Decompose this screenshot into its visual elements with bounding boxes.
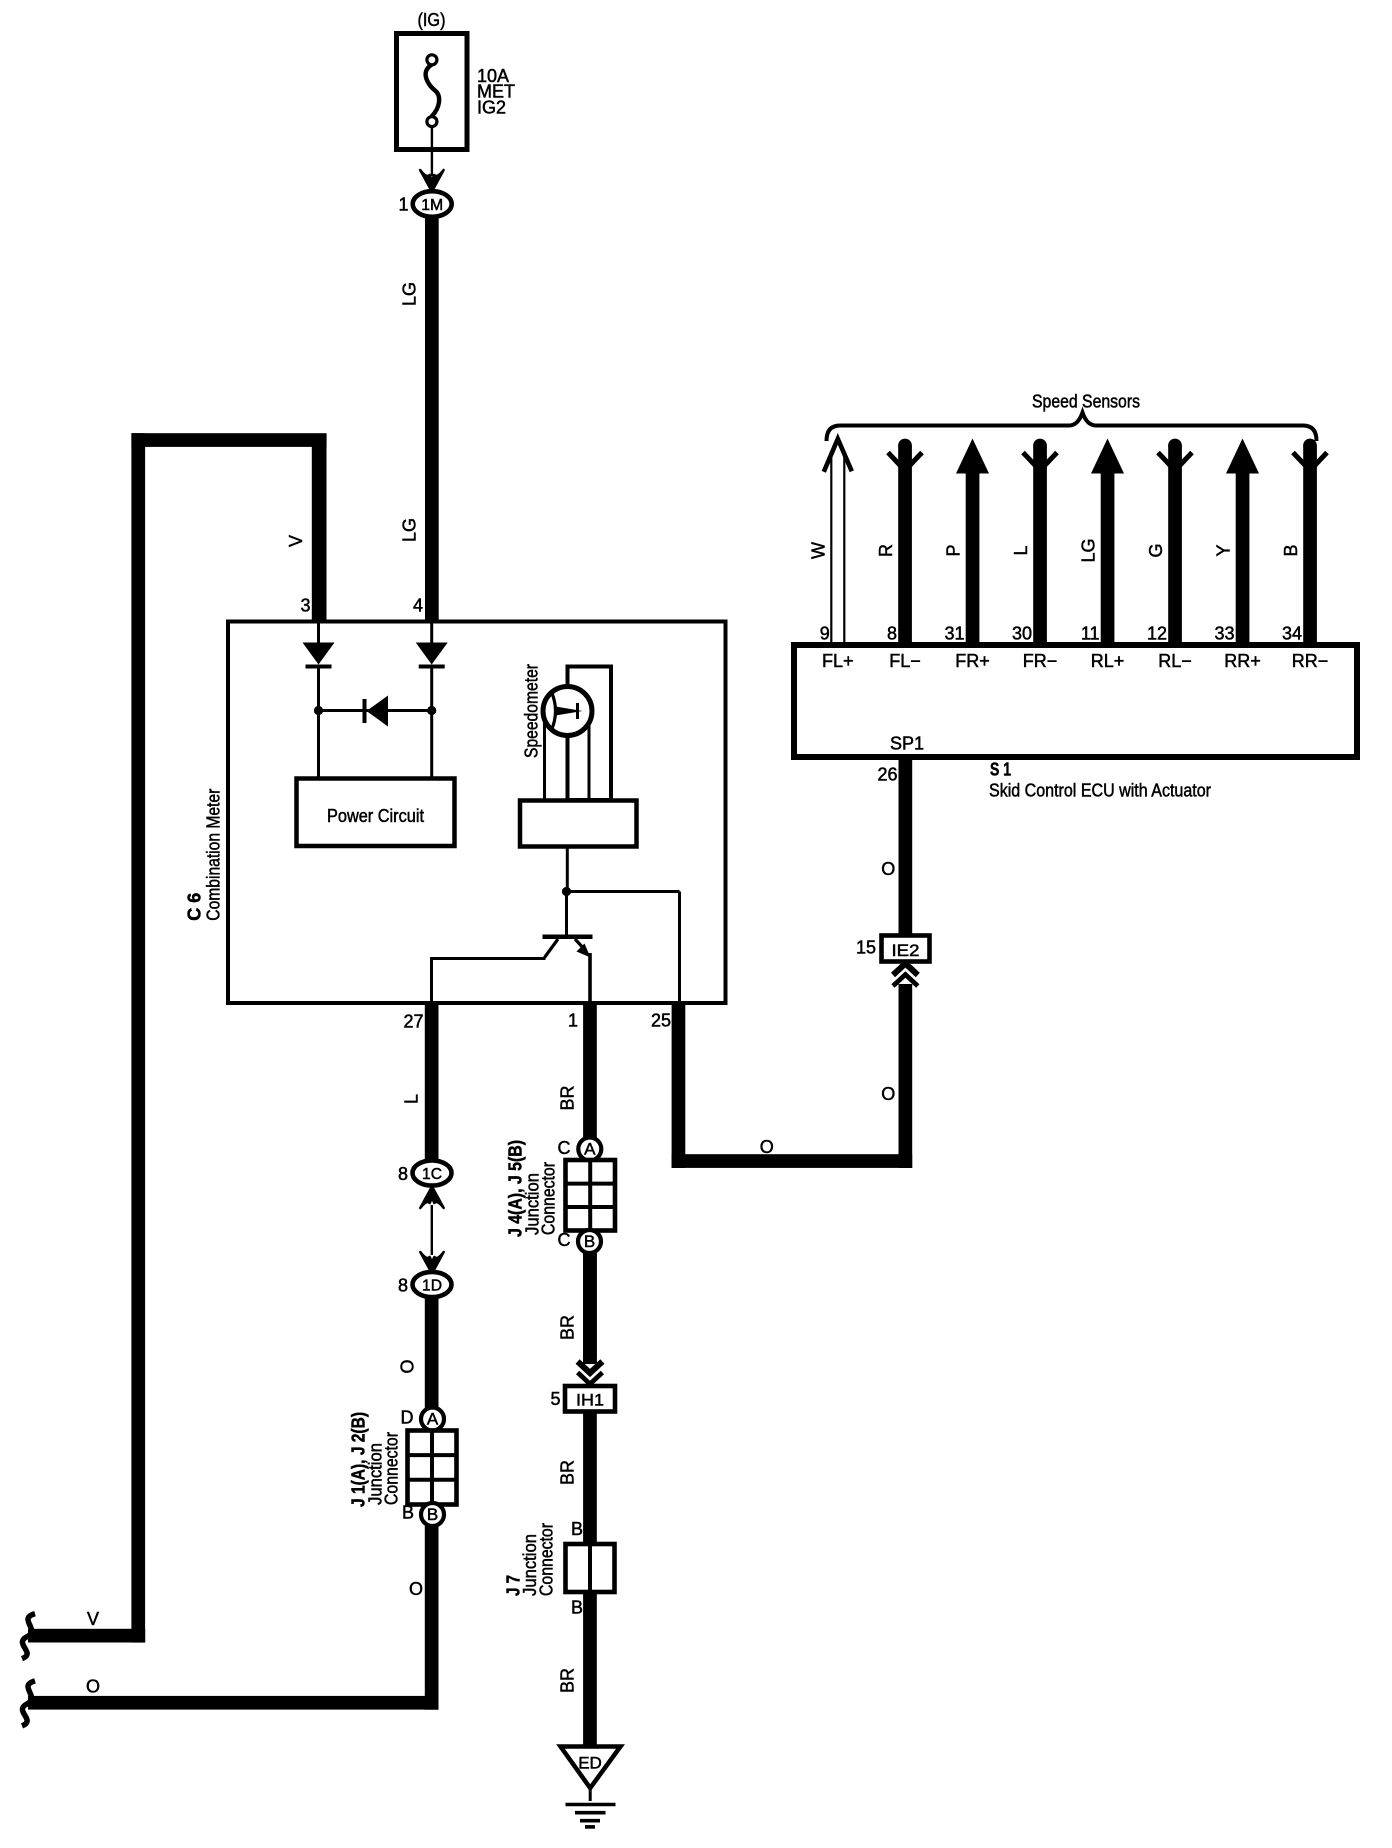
svg-text:25: 25	[651, 1011, 671, 1031]
svg-text:B: B	[584, 1232, 595, 1251]
svg-text:BR: BR	[558, 1085, 578, 1110]
svg-text:LG: LG	[1078, 538, 1098, 562]
wire junction to transistor collector	[565, 892, 568, 935]
svg-text:4: 4	[413, 596, 423, 616]
wire speedometer output	[566, 847, 569, 891]
svg-text:D: D	[401, 1408, 414, 1428]
skid control ECU S1 box	[794, 645, 1357, 801]
svg-text:Speed Sensors: Speed Sensors	[1032, 392, 1140, 412]
connector 1D pin 8	[398, 1272, 452, 1297]
svg-text:33: 33	[1214, 624, 1234, 644]
svg-text:L: L	[1011, 545, 1031, 555]
svg-text:G: G	[1146, 543, 1166, 557]
svg-text:1M: 1M	[421, 197, 443, 214]
svg-text:FR−: FR−	[1023, 651, 1058, 671]
wire between diode branches	[319, 709, 432, 712]
svg-text:5: 5	[550, 1389, 560, 1409]
junction connector J4(A) J5(B) pin C/A top circle	[558, 1138, 602, 1161]
junction connector J1(A) J2(B) pin B/B bottom circle	[402, 1503, 444, 1527]
wire fuse to connector 1M with arrow	[420, 127, 443, 192]
svg-text:Power Circuit: Power Circuit	[327, 806, 424, 826]
svg-text:ED: ED	[578, 1754, 602, 1773]
wire W speed sensor FL+ pin 9 (white wire, open arrow)	[809, 439, 852, 644]
svg-text:31: 31	[944, 624, 964, 644]
svg-text:26: 26	[877, 765, 897, 785]
svg-text:IH1: IH1	[576, 1391, 604, 1410]
svg-text:LG: LG	[400, 282, 420, 306]
svg-text:V: V	[286, 535, 306, 547]
wire junction to pin 25	[567, 892, 680, 1003]
svg-text:L: L	[402, 1094, 422, 1104]
svg-text:SP1: SP1	[890, 734, 924, 754]
svg-text:15: 15	[856, 938, 876, 958]
wire B speed sensor RR- pin 34 (arrow down)	[1281, 439, 1327, 645]
svg-text:RL−: RL−	[1158, 651, 1192, 671]
svg-text:8: 8	[887, 624, 897, 644]
svg-text:LG: LG	[400, 518, 420, 542]
svg-text:C 6: C 6	[185, 893, 205, 921]
wire L pin 27	[402, 1003, 439, 1161]
wire BR from J4/J5 to IH1	[558, 1253, 597, 1364]
svg-text:1C: 1C	[422, 1166, 442, 1183]
svg-text:P: P	[943, 544, 963, 556]
arrow male up into 1C	[420, 1187, 443, 1209]
svg-text:27: 27	[403, 1012, 423, 1032]
node junction dot left	[314, 706, 323, 715]
svg-text:B: B	[1281, 544, 1301, 556]
wire R speed sensor FL- pin 8 (arrow down)	[876, 439, 922, 645]
junction connector J4(A) J5(B) grid	[506, 1140, 616, 1237]
svg-text:B: B	[402, 1503, 414, 1523]
svg-text:8: 8	[398, 1276, 408, 1296]
svg-text:O: O	[409, 1579, 423, 1599]
svg-text:R: R	[876, 544, 896, 557]
svg-text:FL+: FL+	[822, 651, 854, 671]
svg-text:O: O	[760, 1137, 774, 1157]
svg-text:BR: BR	[558, 1460, 578, 1485]
svg-text:34: 34	[1282, 624, 1302, 644]
svg-text:BR: BR	[558, 1315, 578, 1340]
wire O bottom horizontal to break	[28, 1677, 439, 1710]
ground ED	[561, 1747, 621, 1827]
svg-text:Skid Control ECU with Actuator: Skid Control ECU with Actuator	[989, 781, 1211, 801]
junction connector J7 grid	[504, 1523, 615, 1596]
wire Y speed sensor RR+ pin 33 (arrow up)	[1213, 439, 1259, 646]
svg-text:RL+: RL+	[1091, 651, 1125, 671]
svg-text:Y: Y	[1213, 544, 1233, 556]
diode D3 middle pointing left	[363, 696, 389, 727]
svg-text:IE2: IE2	[892, 941, 920, 960]
connector IE2 pin 15	[856, 936, 930, 962]
svg-text:1: 1	[568, 1011, 578, 1031]
svg-text:V: V	[87, 1609, 99, 1629]
svg-text:Connector: Connector	[382, 1432, 402, 1505]
svg-text:B: B	[571, 1598, 583, 1618]
arrow male down into 1D	[420, 1252, 443, 1274]
wire V left vertical long run	[131, 433, 145, 1642]
svg-text:O: O	[86, 1677, 100, 1697]
svg-text:O: O	[398, 1359, 418, 1373]
wire BR pin 1	[558, 1003, 597, 1364]
brace over speed sensor wires	[827, 413, 1317, 442]
svg-text:9: 9	[820, 624, 830, 644]
transistor Q1	[543, 935, 593, 1003]
wire V bottom horizontal to break	[28, 1609, 145, 1643]
wire LG from 1M to combination meter pin 4	[400, 217, 439, 622]
svg-text:O: O	[881, 1084, 895, 1104]
arrow double chevron down into IH1	[578, 1362, 603, 1385]
svg-text:FL−: FL−	[889, 651, 921, 671]
svg-text:B: B	[427, 1505, 438, 1524]
svg-text:C: C	[558, 1138, 571, 1158]
arrow double chevron up into IE2	[893, 964, 918, 987]
node junction dot right	[427, 706, 436, 715]
wire G speed sensor RL- pin 12 (arrow down)	[1146, 439, 1192, 645]
wire O pin 25 path to IE2	[651, 984, 912, 1168]
svg-text:A: A	[427, 1410, 439, 1429]
wire P speed sensor FR+ pin 31 (arrow up)	[943, 439, 989, 646]
connector 1C pin 8	[398, 1160, 452, 1185]
svg-text:RR−: RR−	[1292, 651, 1329, 671]
svg-text:BR: BR	[558, 1668, 578, 1693]
svg-text:(IG): (IG)	[418, 10, 446, 30]
svg-text:O: O	[881, 859, 895, 879]
svg-text:RR+: RR+	[1224, 651, 1261, 671]
diode D1 at pin 3	[303, 623, 335, 778]
junction connector J4(A) J5(B) pin C/B bottom circle	[558, 1230, 602, 1253]
svg-text:12: 12	[1147, 624, 1167, 644]
wire BR from J7 to ground	[558, 1592, 597, 1747]
svg-text:1: 1	[398, 195, 408, 215]
wire O pin 26 from ECU to IE2	[877, 757, 912, 936]
svg-text:FR+: FR+	[955, 651, 990, 671]
svg-text:IG2: IG2	[477, 98, 506, 118]
wire thin between 1C and 1D	[431, 1205, 433, 1255]
connector IH1 pin 5	[550, 1386, 615, 1412]
svg-text:W: W	[809, 542, 829, 559]
wire V vertical to combination meter pin 3	[286, 440, 327, 622]
wire transistor base to pin 27	[430, 959, 546, 1003]
svg-text:Connector: Connector	[539, 1162, 559, 1235]
svg-text:Speedometer: Speedometer	[522, 664, 542, 758]
svg-text:1D: 1D	[422, 1277, 442, 1294]
power circuit box	[297, 779, 455, 847]
wire V top horizontal bar	[131, 433, 326, 447]
wire BR from IH1 to J7	[558, 1412, 597, 1545]
speedometer assembly	[520, 664, 637, 847]
svg-text:S 1: S 1	[990, 760, 1011, 780]
wire break squiggle V	[22, 1614, 35, 1659]
svg-text:C: C	[558, 1230, 571, 1250]
diode D2 at pin 4	[416, 623, 448, 778]
node junction dot	[562, 887, 571, 896]
wire L speed sensor FR- pin 30 (arrow down)	[1011, 439, 1057, 645]
connector 1M pin 1	[398, 191, 451, 217]
junction connector J1(A) J2(B) grid	[349, 1412, 457, 1507]
svg-text:3: 3	[300, 596, 310, 616]
wire LG speed sensor RL+ pin 11 (arrow up)	[1078, 439, 1124, 646]
wire break squiggle O	[22, 1681, 35, 1726]
svg-text:Connector: Connector	[537, 1523, 557, 1596]
svg-text:A: A	[584, 1140, 596, 1159]
fuse F1 10A MET IG2 label (IG)	[397, 10, 516, 150]
svg-text:8: 8	[398, 1164, 408, 1184]
combination meter C6 box	[185, 622, 726, 1004]
svg-text:B: B	[571, 1519, 583, 1539]
wire O from 1D to junction connector J1/J2	[398, 1297, 439, 1408]
svg-text:30: 30	[1012, 624, 1032, 644]
svg-text:Combination Meter: Combination Meter	[204, 789, 224, 921]
svg-text:11: 11	[1081, 624, 1100, 644]
wire O from J1/J2 down to bottom corner	[409, 1526, 439, 1710]
junction connector J1(A) J2(B) pin D/A top circle	[401, 1408, 445, 1431]
